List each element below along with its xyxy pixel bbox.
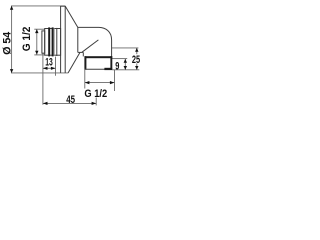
wire: G12-left bottom extension — [34, 54, 44, 56]
flange left edge — [60, 6, 62, 73]
spout right thick edge — [110, 56, 112, 69]
wire: dia54 top extension line — [11, 5, 65, 7]
wire: 13-dim right extension — [55, 57, 57, 76]
arrow dia54 down — [10, 69, 13, 73]
wire: 25-dim shaft lower — [136, 63, 138, 69]
svg-text:G 1/2: G 1/2 — [84, 89, 107, 101]
spout with thick outline — [84, 56, 112, 70]
svg-text:45: 45 — [66, 94, 75, 105]
wire: G12-left top extension — [34, 28, 44, 30]
flange top edge — [61, 5, 66, 7]
cone top edge — [65, 6, 78, 27]
wire: 13-dim line — [43, 67, 56, 69]
svg-text:G 1/2: G 1/2 — [22, 26, 33, 51]
labels — [1, 26, 140, 105]
body corner arc — [99, 27, 112, 40]
arrow 25 up — [135, 48, 138, 52]
arrow 25 down — [135, 66, 138, 70]
arrow 13 right — [51, 67, 56, 70]
spout top thick edge — [85, 56, 113, 58]
arrow 45 right — [92, 102, 97, 105]
wire: G12-left dim shaft — [36, 29, 38, 55]
wire: 25-dim shaft upper — [136, 48, 138, 54]
body bottom edge — [78, 51, 84, 53]
wire: right bottom reference line — [112, 69, 139, 71]
svg-text:Ø 54: Ø 54 — [1, 32, 13, 55]
wire: G12-bottom left extension — [84, 70, 86, 89]
wire: 13-dim left extension / 45-dim left extension — [42, 53, 44, 105]
svg-text:13: 13 — [45, 56, 53, 68]
cone bottom edge — [68, 52, 80, 73]
object outlines — [42, 6, 112, 73]
wire: G12-bottom arrow line — [85, 82, 115, 84]
spout bottom edge — [85, 68, 106, 70]
arrow 13 left — [43, 67, 48, 70]
body left edge — [77, 27, 79, 52]
wire: 45-dim right extension — [95, 98, 97, 106]
arrow G12-left down — [35, 51, 38, 55]
arrow 9 down — [124, 66, 127, 70]
wire: right ext line B — [112, 58, 127, 60]
thread end cap — [42, 31, 45, 53]
thread dark bars — [48, 27, 54, 56]
wire: right ext line A — [112, 47, 138, 49]
step vertical to spout — [82, 52, 84, 56]
arrow G12-bottom right — [110, 81, 115, 84]
spout bottom-right thick segment — [104, 68, 112, 70]
wire: 9-dim shaft — [124, 59, 126, 70]
body right edge — [111, 40, 113, 56]
wire: bottom-left reference line — [11, 72, 68, 74]
thread outer rectangle — [45, 29, 61, 56]
arrow G12-bottom left — [85, 81, 90, 84]
wire: G12-bottom right extension — [114, 70, 116, 91]
wire: dia54 dimension vertical — [11, 6, 13, 73]
spout left thick edge — [84, 56, 86, 69]
svg-text:9: 9 — [115, 60, 119, 72]
inner chamfer diagonal — [82, 40, 98, 52]
arrow 45 left — [43, 102, 48, 105]
svg-text:25: 25 — [132, 54, 140, 66]
arrow 9 up — [124, 59, 127, 63]
flange right edge — [64, 6, 66, 73]
arrow dia54 up — [10, 6, 13, 10]
body top edge — [78, 26, 99, 28]
wire: 45-dim line — [43, 102, 96, 104]
arrowheads — [10, 6, 139, 105]
arrow G12-left up — [35, 29, 38, 33]
thread collar line — [56, 28, 58, 56]
thin dimension / extension lines — [11, 6, 139, 106]
